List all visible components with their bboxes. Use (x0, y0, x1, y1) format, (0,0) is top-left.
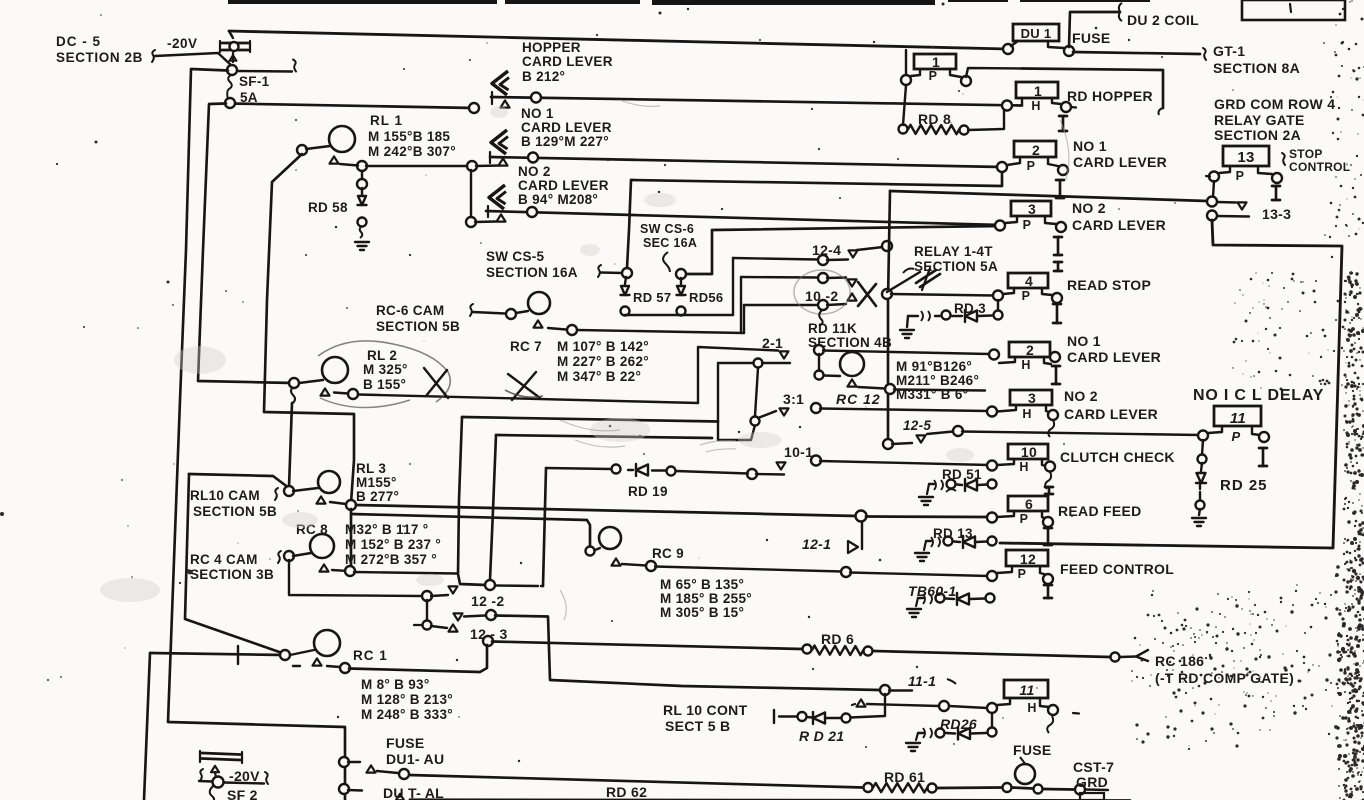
svg-text:CONTROL: CONTROL (1289, 160, 1350, 174)
svg-text:B 212°: B 212° (522, 69, 565, 84)
svg-text:RD 61: RD 61 (884, 769, 925, 785)
svg-text:5A: 5A (240, 90, 258, 105)
svg-text:RD HOPPER: RD HOPPER (1067, 88, 1153, 104)
svg-text:13: 13 (1237, 149, 1254, 166)
svg-text:M 248° B 333°: M 248° B 333° (361, 707, 453, 722)
svg-text:RL 10 CONT: RL 10 CONT (663, 702, 748, 718)
svg-text:SECTION 5B: SECTION 5B (193, 504, 277, 519)
svg-text:B 94° M208°: B 94° M208° (518, 192, 598, 207)
svg-text:RD 11K: RD 11K (808, 321, 857, 336)
svg-text:SECTION 8A: SECTION 8A (1213, 60, 1300, 76)
svg-text:-20V: -20V (229, 768, 260, 784)
svg-text:H: H (1021, 358, 1030, 372)
svg-text:M 91°B126°: M 91°B126° (896, 359, 972, 374)
svg-text:RC 7: RC 7 (510, 339, 542, 354)
svg-text:2-1: 2-1 (762, 335, 783, 351)
svg-text:4: 4 (1025, 273, 1033, 289)
svg-text:1: 1 (1034, 83, 1042, 99)
svg-text:M155°: M155° (356, 475, 397, 490)
svg-text:NO 2: NO 2 (1072, 200, 1106, 216)
svg-text:M331° B 6°: M331° B 6° (896, 387, 968, 402)
svg-text:NO 2: NO 2 (518, 164, 551, 179)
svg-text:11: 11 (1230, 410, 1246, 427)
svg-text:RC 9: RC 9 (652, 546, 684, 561)
svg-text:SECTION 5B: SECTION 5B (376, 319, 460, 334)
svg-text:3: 3 (1028, 390, 1036, 406)
svg-text:3:1: 3:1 (783, 391, 804, 407)
svg-text:M211° B246°: M211° B246° (896, 373, 979, 388)
svg-text:SF-1: SF-1 (239, 74, 270, 89)
svg-text:NO 1: NO 1 (1073, 138, 1107, 154)
svg-text:M 155°B 185: M 155°B 185 (368, 129, 450, 144)
svg-text:M 107° B 142°: M 107° B 142° (557, 339, 649, 354)
svg-text:TB60-1: TB60-1 (908, 583, 956, 599)
svg-text:RD 3: RD 3 (954, 301, 986, 316)
svg-text:DU1- AU: DU1- AU (386, 751, 444, 767)
svg-text:10-1: 10-1 (784, 444, 813, 460)
svg-text:P: P (1232, 429, 1241, 444)
svg-text:RELAY 1-4T: RELAY 1-4T (914, 244, 993, 259)
svg-text:H: H (1022, 407, 1031, 421)
svg-text:RD 6: RD 6 (821, 631, 854, 647)
svg-text:2: 2 (1032, 142, 1040, 158)
svg-text:12 -2: 12 -2 (471, 593, 504, 609)
svg-text:3: 3 (1028, 201, 1036, 217)
svg-text:CARD LEVER: CARD LEVER (521, 120, 612, 135)
svg-text:RC 12: RC 12 (836, 391, 881, 407)
svg-text:RC-6 CAM: RC-6 CAM (376, 303, 444, 318)
svg-text:B 277°: B 277° (356, 489, 399, 504)
svg-text:READ FEED: READ FEED (1058, 503, 1142, 519)
svg-text:M 272°B 357 °: M 272°B 357 ° (345, 552, 437, 567)
svg-text:H: H (1027, 701, 1036, 715)
svg-text:M 325°: M 325° (363, 362, 408, 377)
svg-text:SECTION 2B: SECTION 2B (56, 50, 143, 65)
svg-text:SECTION 2A: SECTION 2A (1214, 127, 1301, 143)
svg-text:P: P (1022, 289, 1031, 303)
svg-text:DU T- AL: DU T- AL (383, 785, 444, 800)
svg-text:RL10 CAM: RL10 CAM (190, 488, 260, 503)
svg-text:M 242°B 307°: M 242°B 307° (368, 144, 456, 159)
svg-text:RD 8: RD 8 (918, 111, 951, 127)
svg-text:SECTION 3B: SECTION 3B (190, 567, 274, 582)
svg-text:RL 1: RL 1 (370, 113, 403, 128)
svg-text:RD 62: RD 62 (606, 784, 647, 800)
svg-text:NO 2: NO 2 (1064, 388, 1098, 404)
svg-text:NO 1: NO 1 (521, 106, 554, 121)
svg-text:RD 25: RD 25 (1220, 477, 1268, 494)
svg-text:R D 21: R D 21 (799, 728, 844, 744)
svg-text:B 155°: B 155° (363, 377, 406, 392)
svg-text:FUSE: FUSE (1072, 30, 1111, 46)
svg-text:1: 1 (932, 54, 940, 70)
svg-text:11-1: 11-1 (908, 673, 936, 689)
svg-text:RC 4 CAM: RC 4 CAM (190, 552, 258, 567)
svg-text:P: P (1027, 159, 1036, 173)
svg-text:STOP: STOP (1289, 147, 1323, 161)
svg-text:SECTION 16A: SECTION 16A (486, 265, 578, 280)
svg-text:RD 51: RD 51 (942, 467, 982, 482)
svg-text:13-3: 13-3 (1262, 206, 1291, 222)
svg-text:FEED CONTROL: FEED CONTROL (1060, 561, 1174, 577)
svg-text:RC 1: RC 1 (353, 648, 388, 663)
svg-text:SECT 5 B: SECT 5 B (665, 718, 730, 734)
svg-text:P: P (1018, 567, 1027, 581)
svg-text:DC - 5: DC - 5 (56, 34, 101, 49)
svg-text:SW CS-5: SW CS-5 (486, 249, 545, 264)
svg-text:DU 1: DU 1 (1021, 26, 1052, 41)
svg-text:6: 6 (1025, 496, 1033, 512)
svg-text:M 8° B 93°: M 8° B 93° (361, 677, 430, 692)
svg-text:RD 19: RD 19 (628, 484, 668, 499)
svg-text:CARD LEVER: CARD LEVER (1073, 154, 1167, 170)
svg-text:P: P (1236, 169, 1245, 183)
svg-text:SF 2: SF 2 (227, 787, 258, 800)
svg-text:NO 1: NO 1 (1067, 333, 1101, 349)
svg-text:RD 58: RD 58 (308, 200, 348, 215)
svg-text:P: P (1023, 218, 1032, 232)
svg-text:12-1: 12-1 (802, 536, 831, 552)
svg-text:CARD LEVER: CARD LEVER (522, 54, 613, 69)
svg-text:-20V: -20V (167, 36, 198, 51)
svg-text:RL 2: RL 2 (367, 348, 397, 363)
svg-text:B 129°M 227°: B 129°M 227° (521, 134, 609, 149)
svg-text:CARD LEVER: CARD LEVER (1067, 349, 1161, 365)
svg-text:FUSE: FUSE (1013, 742, 1052, 758)
svg-text:10: 10 (1021, 444, 1037, 460)
svg-text:2: 2 (1026, 342, 1034, 358)
svg-text:SW CS-6: SW CS-6 (640, 222, 694, 236)
svg-text:M 152° B 237 °: M 152° B 237 ° (345, 537, 441, 552)
svg-text:GRD: GRD (1076, 774, 1108, 790)
svg-text:GT-1: GT-1 (1213, 43, 1245, 59)
svg-text:M 185° B 255°: M 185° B 255° (660, 591, 752, 606)
svg-text:RL 3: RL 3 (356, 461, 386, 476)
svg-text:P: P (929, 69, 938, 83)
svg-text:READ STOP: READ STOP (1067, 277, 1151, 293)
svg-text:SECTION 5A: SECTION 5A (914, 259, 998, 274)
svg-text:GRD COM ROW 4: GRD COM ROW 4 (1214, 96, 1335, 112)
svg-text:M 128° B 213°: M 128° B 213° (361, 692, 453, 707)
svg-text:FUSE: FUSE (386, 735, 425, 751)
svg-text:12-5: 12-5 (903, 418, 931, 433)
svg-text:NO I C L DELAY: NO I C L DELAY (1193, 387, 1324, 404)
svg-text:CARD LEVER: CARD LEVER (518, 178, 609, 193)
svg-text:CST-7: CST-7 (1073, 759, 1114, 775)
svg-text:M 227° B 262°: M 227° B 262° (557, 354, 649, 369)
svg-text:DU 2 COIL: DU 2 COIL (1127, 12, 1199, 28)
svg-text:CARD LEVER: CARD LEVER (1072, 217, 1166, 233)
svg-text:(-T RD COMP GATE): (-T RD COMP GATE) (1155, 670, 1294, 686)
svg-text:M 65° B 135°: M 65° B 135° (660, 577, 744, 592)
svg-text:RD 57: RD 57 (633, 290, 671, 305)
svg-text:SEC 16A: SEC 16A (643, 236, 697, 250)
svg-text:RD 13: RD 13 (933, 526, 973, 541)
svg-text:12: 12 (1020, 551, 1036, 567)
svg-text:H: H (1019, 460, 1028, 474)
svg-text:CARD LEVER: CARD LEVER (1064, 406, 1158, 422)
svg-text:CLUTCH CHECK: CLUTCH CHECK (1060, 449, 1175, 465)
svg-text:P: P (1020, 512, 1029, 526)
svg-text:M 347° B 22°: M 347° B 22° (557, 369, 641, 384)
svg-text:M32° B 117 °: M32° B 117 ° (345, 522, 428, 537)
svg-text:M 305° B 15°: M 305° B 15° (660, 605, 744, 620)
svg-text:HOPPER: HOPPER (522, 40, 581, 55)
svg-text:H: H (1031, 99, 1040, 113)
svg-text:RD56: RD56 (689, 290, 723, 305)
svg-text:11: 11 (1019, 682, 1034, 698)
svg-text:RELAY GATE: RELAY GATE (1214, 112, 1305, 128)
